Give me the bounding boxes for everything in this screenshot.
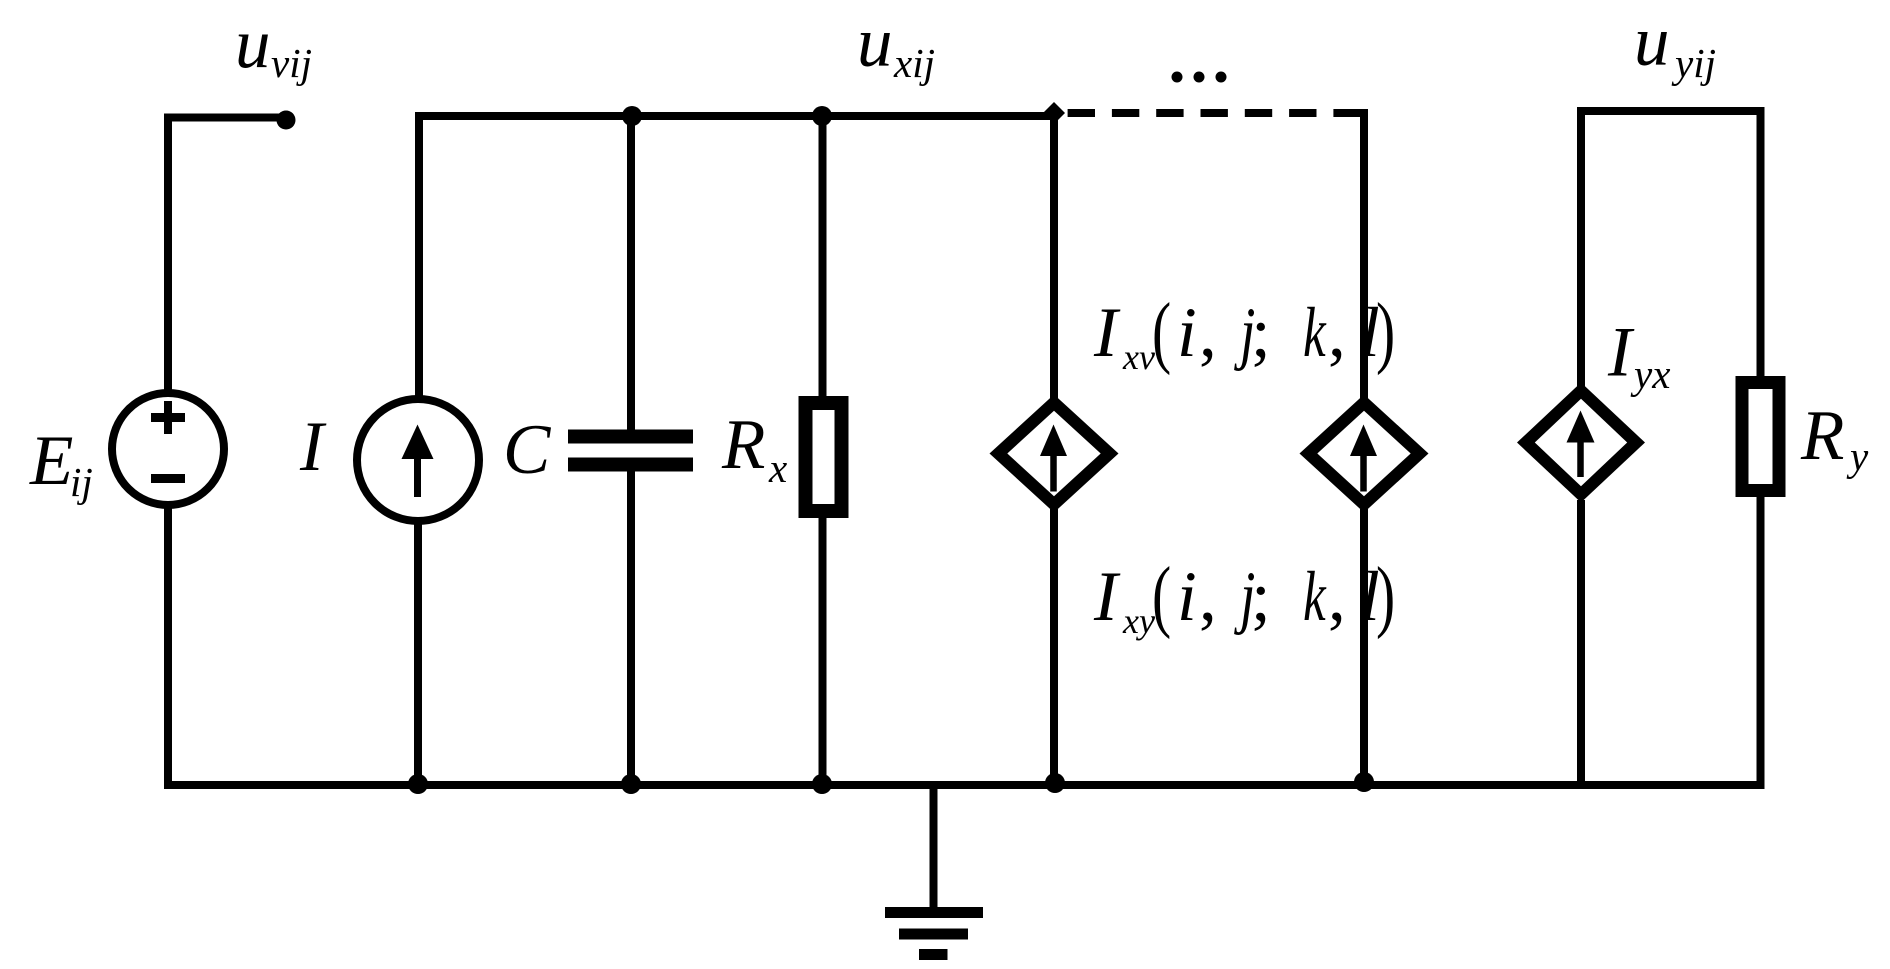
label u_vij bbox=[235, 5, 312, 86]
ground bbox=[885, 785, 983, 960]
wire capacitor top bbox=[627, 116, 635, 431]
wire dashed rail to neighbour cells bbox=[1068, 109, 1361, 117]
wire I bottom bbox=[414, 522, 422, 789]
svg-text:yij: yij bbox=[1671, 40, 1716, 86]
label u_yij bbox=[1634, 3, 1716, 87]
label E_ij bbox=[29, 422, 93, 505]
wire capacitor bottom bbox=[627, 469, 635, 789]
svg-text:;: ; bbox=[1251, 294, 1271, 372]
svg-text:i: i bbox=[1177, 558, 1197, 636]
svg-text:R: R bbox=[1800, 397, 1844, 475]
label Ixy(i, j; k, l) bbox=[1093, 552, 1395, 641]
wire Rx top bbox=[819, 116, 827, 400]
wire E_ij branch top stub to node u_vij bbox=[168, 118, 286, 397]
junction dot capacitor-top bbox=[622, 106, 642, 126]
label Rx bbox=[721, 406, 787, 491]
current source I bbox=[357, 399, 479, 521]
svg-text:vij: vij bbox=[271, 40, 312, 86]
resistor Rx bbox=[806, 403, 842, 511]
svg-text:I: I bbox=[1093, 294, 1121, 372]
junction dot Ixv-bottom bbox=[1045, 773, 1065, 793]
svg-text:): ) bbox=[1376, 552, 1395, 640]
node u_vij terminal dot bbox=[277, 111, 296, 130]
svg-text:xv: xv bbox=[1122, 337, 1155, 377]
junction dot Rx-top bbox=[812, 106, 832, 126]
svg-text:I: I bbox=[1607, 314, 1635, 392]
label u_xij bbox=[857, 4, 935, 87]
capacitor C bbox=[568, 430, 693, 472]
resistor Ry bbox=[1742, 383, 1779, 491]
svg-text:k: k bbox=[1303, 294, 1327, 372]
wire right section rail (node u_yij) bbox=[1581, 111, 1761, 389]
wire Rx bottom bbox=[819, 516, 827, 789]
svg-text:C: C bbox=[503, 411, 552, 489]
junction diamond-marker u_xij / dashed rail bbox=[1043, 102, 1065, 124]
svg-text:y: y bbox=[1846, 433, 1869, 479]
ellipsis dots bbox=[1172, 72, 1227, 83]
controlled source Ixy (diamond) bbox=[1300, 395, 1429, 513]
controlled source Iyx (diamond) bbox=[1517, 383, 1645, 503]
svg-text:;: ; bbox=[1251, 558, 1271, 636]
svg-text:(: ( bbox=[1152, 552, 1171, 640]
wire Ixv bottom bbox=[1050, 509, 1058, 789]
wire E_ij bottom bbox=[164, 503, 172, 789]
svg-text:xy: xy bbox=[1122, 601, 1155, 641]
wire Ixv top bbox=[1050, 118, 1058, 400]
svg-text:u: u bbox=[857, 4, 893, 82]
svg-text:I: I bbox=[1093, 558, 1121, 636]
svg-text:R: R bbox=[721, 406, 765, 484]
wire Iyx bottom bbox=[1577, 500, 1585, 789]
svg-text:E: E bbox=[29, 422, 73, 500]
svg-text:): ) bbox=[1376, 288, 1395, 376]
controlled source Ixv (diamond) bbox=[990, 395, 1119, 513]
svg-text:,: , bbox=[1199, 294, 1217, 372]
svg-text:,: , bbox=[1328, 294, 1346, 372]
svg-text:u: u bbox=[1634, 3, 1670, 81]
svg-text:x: x bbox=[768, 445, 787, 491]
wire Ry bottom bbox=[1757, 495, 1765, 785]
junction dot Rx-bottom bbox=[812, 774, 832, 794]
svg-text:ij: ij bbox=[70, 459, 93, 505]
svg-text:I: I bbox=[299, 408, 327, 486]
label Iyx bbox=[1607, 314, 1670, 398]
wire Ixy top (from dashed corner) bbox=[1360, 109, 1368, 400]
bottom rail (ground net) bbox=[164, 781, 1765, 789]
svg-text:yx: yx bbox=[1630, 351, 1670, 397]
junction dot I-bottom bbox=[408, 774, 428, 794]
label Ixv(i, j; k, l) bbox=[1093, 288, 1395, 377]
svg-text:xij: xij bbox=[893, 40, 935, 86]
svg-text:,: , bbox=[1199, 558, 1217, 636]
svg-text:u: u bbox=[235, 5, 271, 83]
svg-text:k: k bbox=[1303, 558, 1327, 636]
junction dot Ixy-bottom bbox=[1354, 772, 1374, 792]
wire Ixy bottom bbox=[1360, 509, 1368, 789]
label Ry bbox=[1800, 397, 1869, 479]
junction dot capacitor-bottom bbox=[621, 774, 641, 794]
wire top rail (node u_xij) bbox=[419, 116, 1054, 400]
svg-text:,: , bbox=[1328, 558, 1346, 636]
svg-text:i: i bbox=[1177, 294, 1197, 372]
svg-text:(: ( bbox=[1152, 288, 1171, 376]
voltage source E_ij bbox=[112, 393, 224, 505]
